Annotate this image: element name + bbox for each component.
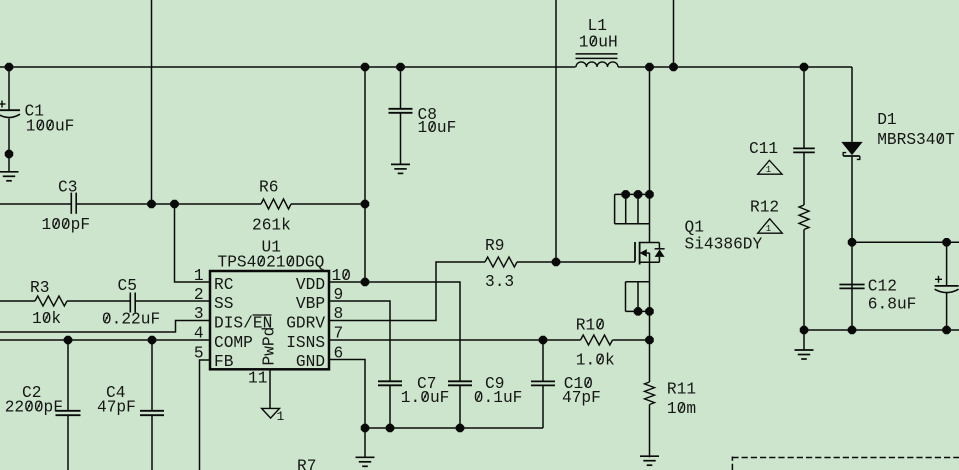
junction node at (638,194.4) — [634, 190, 643, 199]
junction node at (852,242.3) — [848, 238, 857, 247]
label R9 — [485, 237, 514, 291]
wire COMP row to pin 4 — [0, 339, 210, 341]
svg-text:MBRS340T: MBRS340T — [877, 131, 955, 149]
label R12 — [750, 199, 779, 217]
capacitor (polarized output bulk, right edge) — [935, 276, 959, 293]
svg-text:1.0uF: 1.0uF — [401, 389, 450, 407]
svg-text:Si4386DY: Si4386DY — [685, 235, 763, 253]
dashed border corner (title block) — [732, 457, 959, 470]
wire sense node down to R11 top — [649, 340, 651, 382]
junction node at (543,340) — [539, 336, 548, 345]
wire R10 left segment — [543, 339, 581, 341]
wire output ground rail to right edge — [804, 329, 959, 331]
capacitor C1 (polarized input bulk) — [0, 101, 20, 118]
wire switch-node rail (L1 right to D1) — [618, 66, 852, 68]
wire RC row left of C3 — [0, 203, 71, 205]
wire switch rail corner down to D1 anode — [851, 67, 853, 142]
capacitor C5 — [130, 293, 135, 313]
junction node at (400.5,67) — [396, 63, 405, 72]
svg-text:TPS40210DGQ: TPS40210DGQ — [218, 254, 325, 272]
junction node at (460,428) — [456, 424, 465, 433]
junction node at (852,330) — [848, 326, 857, 335]
label C8 — [418, 106, 457, 137]
wire C1 minus to ground node — [8, 118, 10, 154]
capacitor C8 — [389, 109, 413, 113]
wire VOUT down to output capacitor top — [946, 242, 948, 286]
svg-text:R6: R6 — [259, 179, 278, 197]
svg-text:261k: 261k — [252, 216, 291, 234]
U1 pin 2 SS — [194, 286, 234, 313]
wire U1 pin 11 stub — [269, 370, 271, 409]
svg-text:D1: D1 — [877, 111, 896, 129]
svg-text:SS: SS — [214, 295, 233, 313]
transistor Q1 source pin comb — [626, 282, 650, 312]
wire GDRV pin 8 up to R9 left — [329, 262, 485, 321]
svg-text:4: 4 — [194, 325, 204, 343]
svg-text:L1: L1 — [588, 17, 607, 35]
U1 pin 9 VBP — [296, 286, 343, 313]
junction node at (804,67) — [800, 63, 809, 72]
U1 pin 4 COMP — [194, 325, 253, 353]
capacitor C7 — [378, 381, 402, 385]
label C5 — [102, 277, 160, 329]
svg-text:C11: C11 — [749, 140, 778, 158]
junction node at (804,330) — [800, 326, 809, 335]
wire VDD vertical from input rail through R6 node to pin 10 — [364, 67, 366, 282]
wire Q1 drain comb right column — [649, 194, 651, 223]
resistor R9 — [485, 257, 517, 267]
svg-text:GND: GND — [296, 353, 325, 371]
wire VDD pin 10 to C9 top — [329, 282, 460, 381]
wire R10 right to sense node — [613, 339, 650, 341]
svg-text:COMP: COMP — [214, 334, 253, 352]
svg-text:10m: 10m — [667, 400, 696, 418]
U1 pin 11 PwPd — [248, 327, 279, 388]
svg-text:R9: R9 — [485, 237, 504, 255]
junction node at (625.7,194.4) — [621, 190, 630, 199]
svg-text:2: 2 — [194, 286, 204, 304]
svg-text:3: 3 — [194, 305, 204, 323]
U1 pin 3 DIS/EN — [194, 305, 272, 333]
wire C8 bottom to ground — [400, 113, 402, 164]
wire Q1 drain comb to MOSFET drain — [649, 224, 651, 243]
wire COMP node down to C4 top — [151, 340, 153, 411]
ground (below C1) — [0, 172, 19, 181]
svg-text:1: 1 — [766, 165, 771, 175]
U1 pin 8 GDRV — [286, 305, 343, 333]
svg-text:10k: 10k — [32, 310, 61, 328]
svg-text:8: 8 — [334, 305, 344, 323]
label Q1 — [685, 218, 763, 253]
wire sense node down to C10 top — [542, 340, 544, 381]
wire vertical from top edge to switch rail — [673, 0, 675, 67]
junction node at (946.6,242.3) — [942, 238, 951, 247]
wire output capacitor bottom to ground rail — [946, 293, 948, 331]
junction node at (365,67) — [361, 63, 370, 72]
U1 pin 7 ISNS — [286, 325, 343, 353]
svg-text:GDRV: GDRV — [286, 315, 325, 333]
resistor R3 — [35, 296, 67, 306]
svg-text:1: 1 — [277, 409, 285, 424]
svg-text:10: 10 — [332, 267, 351, 285]
capacitor C12 — [839, 285, 864, 289]
wire ISNS pin 7 to R10 left node — [329, 339, 543, 341]
junction node at (946.6,330) — [942, 326, 951, 335]
junction node at (673.5,67) — [669, 63, 678, 72]
label C7 — [401, 375, 450, 407]
svg-text:6.8uF: 6.8uF — [868, 295, 917, 313]
ground (output ground rail) — [795, 350, 814, 359]
svg-text:11: 11 — [248, 370, 267, 388]
junction node at (152,340) — [148, 336, 157, 345]
svg-text:R10: R10 — [576, 317, 605, 335]
wire from RC node down to pin 1 RC — [175, 204, 211, 282]
svg-text:R7: R7 — [297, 458, 316, 470]
wire ground stub below output ground rail — [803, 330, 805, 350]
wire input rail down to C1 plus — [8, 67, 10, 110]
wire R9 right to gate of Q1 — [517, 261, 635, 263]
label D1 — [877, 111, 955, 149]
svg-text:9: 9 — [334, 286, 344, 304]
ground (below U1 GND rail) — [356, 457, 375, 466]
svg-text:3.3: 3.3 — [485, 273, 514, 291]
junction node at (649.5,194.4) — [645, 190, 654, 199]
wire R11 bottom to ground — [649, 405, 651, 458]
junction node at (365,204) — [361, 200, 370, 209]
op-amp U1 body (TPS40210DGQ controller) — [210, 271, 329, 369]
capacitor C9 — [448, 381, 472, 385]
wire C2 bottom off-page — [67, 416, 69, 470]
svg-text:47pF: 47pF — [97, 399, 136, 417]
svg-text:ISNS: ISNS — [286, 334, 325, 352]
wire FB pin 5 down to R7 off-page — [200, 360, 211, 470]
label C4 — [97, 384, 136, 417]
junction node at (68,340) — [64, 336, 73, 345]
wire C7 bottom to ground rail — [389, 385, 391, 428]
wire VBP pin 9 to C7 top — [329, 301, 390, 381]
capacitor C11 — [793, 148, 815, 152]
svg-text:Q1: Q1 — [685, 218, 704, 236]
resistor R12 (vertical) — [799, 205, 809, 230]
label C2 — [5, 384, 63, 417]
svg-text:C5: C5 — [118, 277, 137, 295]
svg-text:PwPd: PwPd — [261, 327, 279, 366]
wire vertical from top edge to gate node — [555, 0, 557, 262]
variant marker triangle 1 (C11) — [758, 160, 782, 175]
label C11 — [749, 140, 778, 158]
capacitor C2 — [56, 411, 81, 415]
resistor R11 (vertical sense) — [645, 382, 655, 405]
wire Q1 source comb down to sense node — [649, 311, 651, 340]
wire ground stub below U1 GND rail — [364, 428, 366, 457]
svg-text:RC: RC — [214, 276, 234, 294]
label C10 — [562, 375, 601, 407]
svg-text:1: 1 — [766, 224, 771, 234]
svg-text:6: 6 — [334, 345, 344, 363]
resistor R10 — [581, 335, 613, 345]
wire ground rail under C7 C9 C10 — [365, 427, 543, 429]
U1 pin 1 RC — [194, 267, 234, 294]
junction node at (649.5,340) — [645, 336, 654, 345]
label U1 — [218, 239, 325, 272]
ground (below C8) — [391, 164, 410, 173]
junction node at (174.5,204) — [170, 200, 179, 209]
svg-text:VBP: VBP — [296, 295, 325, 313]
junction node at (390,428) — [386, 424, 395, 433]
junction node at (365,428) — [361, 424, 370, 433]
wire SS row through R3 and C5 to pin 2 — [0, 300, 210, 302]
junction node at (638,311.4) — [634, 307, 643, 316]
svg-text:R3: R3 — [30, 279, 49, 297]
wire GND pin 6 down to ground rail — [329, 360, 365, 429]
wire C10 bottom to ground rail — [542, 385, 544, 428]
wire RC row between C3 and R6 and to VDD vertical — [76, 203, 365, 205]
svg-text:C12: C12 — [868, 278, 897, 296]
junction node at (649.5,311.4) — [645, 307, 654, 316]
junction node at (151.5,204) — [147, 200, 156, 209]
svg-text:1.0k: 1.0k — [576, 352, 615, 370]
svg-text:2200pF: 2200pF — [5, 399, 63, 417]
label C3 — [42, 179, 91, 235]
svg-text:0.22uF: 0.22uF — [102, 311, 160, 329]
svg-text:47pF: 47pF — [562, 389, 601, 407]
U1 pin 6 GND — [296, 345, 343, 372]
U1 pin 10 VDD — [296, 267, 351, 294]
U1 pin 5 FB — [194, 345, 234, 372]
capacitor C10 — [531, 381, 555, 385]
resistor R6 — [261, 199, 291, 209]
wire switch rail down to Q1 drain pins — [649, 67, 651, 194]
wire C9 bottom to ground rail — [459, 385, 461, 428]
wire C11 bottom to R12 top — [803, 153, 805, 205]
junction node at (365,282) — [361, 278, 370, 287]
capacitor C3 — [71, 193, 76, 214]
transistor Q1 drain pin comb — [615, 194, 650, 223]
ground (below R11) — [640, 456, 659, 465]
junction node at (9,154) — [5, 150, 14, 159]
wire D1 cathode down through VOUT node to ground rail — [851, 157, 853, 330]
wire C1 ground stub — [8, 154, 10, 172]
wire R12 bottom to output ground rail — [803, 230, 805, 331]
transistor Q1 (Si4386DY N-MOSFET) — [635, 242, 665, 265]
svg-text:10uF: 10uF — [418, 119, 457, 137]
label C9 — [474, 375, 523, 407]
wire vertical from top edge to RC node — [151, 0, 153, 204]
wire input rail down to C8 top — [400, 67, 402, 109]
diode D1 (MBRS340T Schottky) — [841, 142, 862, 160]
inductor L1 — [576, 54, 619, 67]
wire input rail left segment (VIN to L1) — [0, 66, 576, 68]
svg-text:C3: C3 — [58, 179, 77, 197]
svg-text:R11: R11 — [667, 381, 696, 399]
svg-text:5: 5 — [194, 345, 204, 363]
label R11 — [667, 381, 696, 419]
wire C4 bottom off-page — [151, 416, 153, 470]
wire COMP node down to C2 top — [67, 340, 69, 411]
svg-text:0.1uF: 0.1uF — [474, 389, 523, 407]
label R3 — [30, 279, 61, 328]
junction node at (649.5,67) — [645, 63, 654, 72]
wire switch rail down to C11 top — [803, 67, 805, 148]
svg-text:R12: R12 — [750, 199, 779, 217]
svg-text:100pF: 100pF — [42, 216, 91, 234]
svg-text:10uH: 10uH — [579, 34, 618, 52]
svg-text:VDD: VDD — [296, 276, 325, 294]
label C12 — [868, 278, 917, 314]
wire VOUT row to right edge — [852, 241, 959, 243]
svg-text:FB: FB — [214, 353, 234, 371]
wire DIS/EN row with jog to pin 3 — [0, 321, 210, 333]
variant marker triangle 1 (R12) — [758, 219, 783, 234]
svg-text:7: 7 — [334, 325, 344, 343]
svg-text:1: 1 — [194, 267, 204, 285]
label R7 (partially visible) — [297, 458, 316, 470]
junction node at (556,262) — [552, 258, 561, 267]
label L1 — [579, 17, 618, 52]
junction node at (9,67) — [5, 63, 14, 72]
capacitor C4 — [140, 411, 164, 415]
svg-text:100uF: 100uF — [26, 117, 75, 135]
wire Q1 source lead through source comb — [649, 262, 651, 311]
label R10 — [576, 317, 615, 370]
label C1 — [25, 103, 75, 136]
ground (analog ground triangle, net 1) — [262, 408, 285, 423]
label R6 — [252, 179, 291, 235]
